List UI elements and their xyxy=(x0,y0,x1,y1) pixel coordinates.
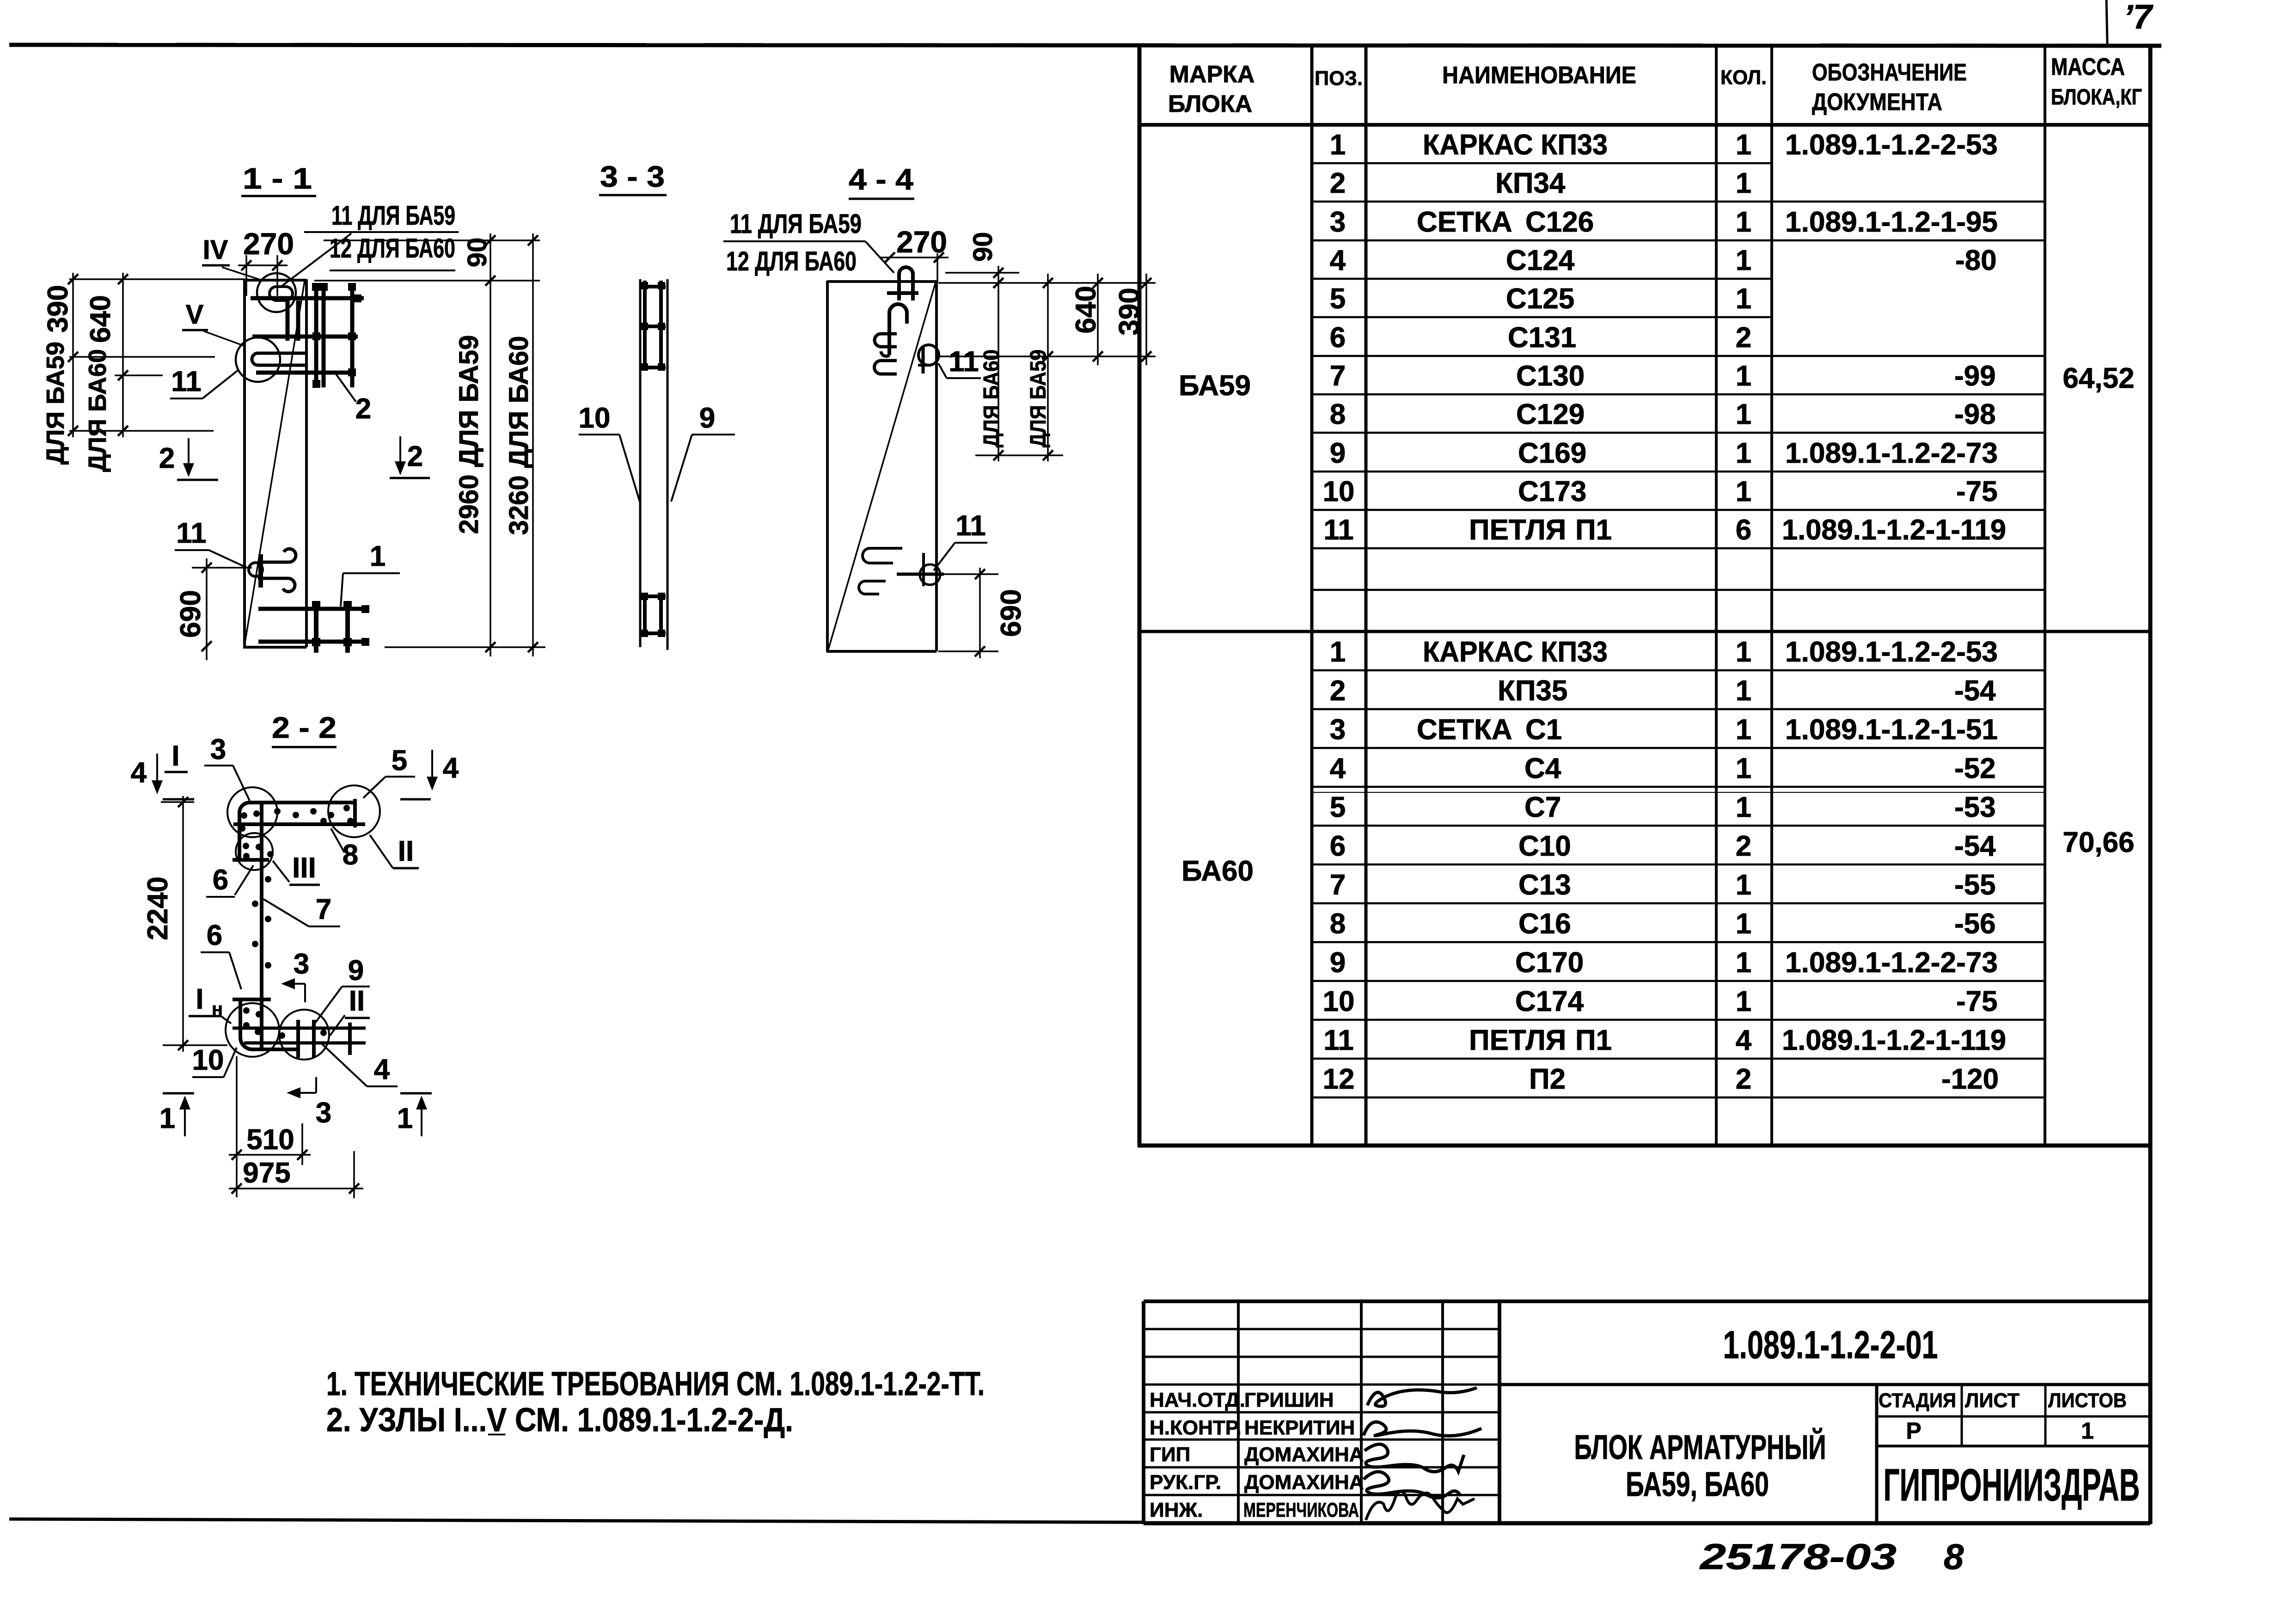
svg-text:11: 11 xyxy=(955,510,986,542)
svg-text:2: 2 xyxy=(159,442,175,474)
svg-text:БЛОКА,КГ: БЛОКА,КГ xyxy=(2051,85,2142,110)
view 1-1 right dim ticks xyxy=(485,235,538,652)
svg-text:1: 1 xyxy=(159,1103,175,1134)
svg-text:ДЛЯ БА59: ДЛЯ БА59 xyxy=(42,342,69,465)
svg-text:П2: П2 xyxy=(1529,1063,1566,1095)
svg-text:3: 3 xyxy=(316,1097,331,1129)
view 1-1 lifting loop П1 top xyxy=(252,287,306,365)
svg-text:2. УЗЛЫ I...V̲ СМ. 1.089.1-1.2: 2. УЗЛЫ I...V̲ СМ. 1.089.1-1.2-2-Д. xyxy=(326,1402,793,1439)
svg-text:С1: С1 xyxy=(1525,714,1562,746)
view 1-1 leader IV to panel xyxy=(222,267,259,279)
svg-text:1: 1 xyxy=(1736,791,1751,823)
svg-text:7: 7 xyxy=(1330,869,1346,901)
svg-text:КП34: КП34 xyxy=(1495,167,1566,199)
svg-text:70,66: 70,66 xyxy=(2062,827,2134,858)
БА59 quantities xyxy=(1736,129,1751,546)
svg-text:1: 1 xyxy=(1736,360,1751,392)
svg-text:690: 690 xyxy=(995,589,1027,637)
svg-text:ДЛЯ БА60: ДЛЯ БА60 xyxy=(979,349,1004,447)
title block signature rows xyxy=(1144,1329,1499,1495)
spec table header bottom line xyxy=(1139,123,2150,127)
svg-text:8: 8 xyxy=(343,839,358,871)
svg-text:270: 270 xyxy=(243,227,294,261)
СТАДИЯ/ЛИСТ separator xyxy=(1961,1385,1963,1446)
svg-text:ДОКУМЕНТА: ДОКУМЕНТА xyxy=(1812,89,1942,116)
svg-text:1: 1 xyxy=(1736,398,1751,430)
view 2-2 rebar dots xyxy=(239,805,354,1039)
view 3-3 element outline xyxy=(639,279,642,647)
view 1-1 bottom mesh dots xyxy=(312,601,369,646)
svg-text:8: 8 xyxy=(1944,1536,1964,1577)
stage value row bottom xyxy=(1877,1445,2150,1447)
stage cells xyxy=(1879,1389,2127,1444)
signature Домахина (ГИП) xyxy=(1365,1444,1464,1471)
svg-text:Р: Р xyxy=(1906,1418,1921,1444)
stage header row bottom xyxy=(1877,1416,2150,1418)
svg-text:9: 9 xyxy=(348,955,364,987)
svg-text:-99: -99 xyxy=(1954,360,1996,392)
view 1-1 left extension lines xyxy=(69,279,245,431)
svg-text:4: 4 xyxy=(443,752,459,784)
svg-text:3: 3 xyxy=(210,734,226,766)
svg-text:ИНЖ.: ИНЖ. xyxy=(1150,1499,1203,1521)
svg-text:390: 390 xyxy=(1114,288,1145,335)
svg-text:6: 6 xyxy=(1330,322,1346,354)
svg-text:БА59: БА59 xyxy=(1179,370,1251,402)
svg-text:-98: -98 xyxy=(1954,398,1996,430)
svg-text:2240: 2240 xyxy=(142,876,174,940)
view 4-4 dim 690 xyxy=(920,573,998,575)
svg-text:270: 270 xyxy=(896,225,947,259)
svg-text:БА60: БА60 xyxy=(1181,855,1254,887)
svg-text:-55: -55 xyxy=(1954,869,1996,901)
view 2-2 flange end bar xyxy=(353,799,357,827)
svg-text:С131: С131 xyxy=(1508,322,1576,354)
svg-text:1: 1 xyxy=(2081,1418,2094,1444)
view 2-2 dim 2240 xyxy=(161,801,194,803)
view 2-2 dim 975 xyxy=(353,1151,355,1198)
svg-text:КАРКАС КП33: КАРКАС КП33 xyxy=(1423,636,1608,668)
svg-text:11: 11 xyxy=(176,517,207,549)
page number separator tick xyxy=(2106,0,2107,45)
svg-text:-75: -75 xyxy=(1956,476,1998,508)
svg-text:12: 12 xyxy=(1323,1063,1355,1095)
view 4-4 top lifting loop xyxy=(875,267,939,374)
svg-text:1.089.1-1.2-2-73: 1.089.1-1.2-2-73 xyxy=(1785,947,1998,979)
signature Гришин xyxy=(1367,1388,1477,1406)
svg-text:9: 9 xyxy=(1330,947,1346,979)
svg-text:Н.КОНТР.: Н.КОНТР. xyxy=(1150,1416,1242,1439)
svg-text:П1: П1 xyxy=(1575,1024,1612,1056)
svg-text:С13: С13 xyxy=(1518,869,1571,901)
svg-text:С173: С173 xyxy=(1518,476,1586,508)
svg-text:С125: С125 xyxy=(1506,283,1574,315)
БА60 quantities xyxy=(1736,636,1752,1095)
view 4-4 bottom hooks xyxy=(859,548,944,594)
view 4-4 panel outline xyxy=(826,281,936,651)
view 1-1 left dim lines xyxy=(73,273,123,437)
view 2-2 node circle II upper xyxy=(328,785,380,837)
view 2-2 title underline xyxy=(272,746,337,748)
svg-text:2: 2 xyxy=(1736,830,1751,862)
svg-text:12 ДЛЯ БА60: 12 ДЛЯ БА60 xyxy=(330,233,455,264)
view 3-3 top stirrup xyxy=(641,281,666,370)
svg-text:8: 8 xyxy=(1330,398,1346,430)
svg-text:III: III xyxy=(292,852,316,884)
svg-text:1: 1 xyxy=(1736,283,1751,315)
view 4-4 right dim ticks xyxy=(993,268,1151,460)
svg-text:ЛИСТ: ЛИСТ xyxy=(1965,1389,2020,1412)
svg-text:6: 6 xyxy=(1330,830,1346,862)
svg-text:ДЛЯ БА60: ДЛЯ БА60 xyxy=(84,349,111,472)
svg-text:11: 11 xyxy=(949,346,979,378)
svg-text:10: 10 xyxy=(579,402,611,434)
frame top border xyxy=(9,45,2161,46)
svg-text:1.089.1-1.2-2-73: 1.089.1-1.2-2-73 xyxy=(1785,437,1998,469)
БА60 names xyxy=(1417,636,1612,1095)
svg-text:С124: С124 xyxy=(1506,245,1575,276)
view 3-3 title underline xyxy=(599,194,667,196)
svg-text:РУК.ГР.: РУК.ГР. xyxy=(1150,1471,1221,1494)
svg-text:64,52: 64,52 xyxy=(2062,362,2134,394)
svg-text:90: 90 xyxy=(968,232,998,262)
spec table bottom border xyxy=(1138,1144,2150,1148)
svg-text:2: 2 xyxy=(355,393,371,425)
svg-text:1: 1 xyxy=(1736,947,1751,979)
svg-text:1: 1 xyxy=(1736,714,1751,746)
БА59 pos numbers xyxy=(1323,129,1355,546)
svg-text:640: 640 xyxy=(85,295,116,343)
svg-text:БЛОК АРМАТУРНЫЙ: БЛОК АРМАТУРНЫЙ xyxy=(1574,1428,1826,1466)
svg-text:11: 11 xyxy=(1323,514,1354,546)
svg-text:3: 3 xyxy=(1330,714,1346,746)
svg-text:СТАДИЯ: СТАДИЯ xyxy=(1879,1389,1956,1412)
title block top line xyxy=(1144,1299,2150,1303)
svg-text:1: 1 xyxy=(370,540,386,572)
svg-text:МЕРЕНЧИКОВА: МЕРЕНЧИКОВА xyxy=(1243,1499,1359,1521)
svg-text:5: 5 xyxy=(1330,791,1346,823)
svg-text:3: 3 xyxy=(294,948,309,980)
svg-text:V: V xyxy=(186,300,204,330)
svg-text:2: 2 xyxy=(1736,1063,1751,1095)
view 3-3 bottom stirrup xyxy=(641,594,666,637)
view 1-1 right extension lines xyxy=(314,240,545,647)
svg-text:690: 690 xyxy=(175,590,207,637)
view 1-1 panel outline xyxy=(243,279,306,647)
svg-text:1: 1 xyxy=(1736,986,1751,1017)
view 1-1 top mesh end dots xyxy=(312,283,361,388)
svg-text:ГРИШИН: ГРИШИН xyxy=(1244,1389,1334,1411)
svg-text:1.089.1-1.2-1-119: 1.089.1-1.2-1-119 xyxy=(1782,514,2006,546)
svg-text:3260 ДЛЯ БА60: 3260 ДЛЯ БА60 xyxy=(504,336,534,535)
svg-text:БА59, БА60: БА59, БА60 xyxy=(1626,1465,1769,1503)
svg-text:8: 8 xyxy=(1330,908,1346,940)
title block vertical: labels/names xyxy=(1237,1301,1240,1523)
svg-text:11: 11 xyxy=(171,366,202,398)
svg-text:5: 5 xyxy=(392,745,407,777)
svg-text:1: 1 xyxy=(1330,636,1346,668)
view 2-2 node circle I xyxy=(227,787,277,837)
svg-text:2: 2 xyxy=(407,441,423,472)
svg-text:1: 1 xyxy=(1736,869,1751,901)
svg-text:2 - 2: 2 - 2 xyxy=(272,711,337,744)
view 1-1 leader V to hook xyxy=(203,331,244,346)
title block vertical: left part / document part xyxy=(1498,1301,1501,1523)
svg-text:П1: П1 xyxy=(1575,514,1612,546)
svg-text:2: 2 xyxy=(1330,675,1346,707)
view 1-1 bottom lifting loop xyxy=(249,549,296,592)
svg-text:ПОЗ.: ПОЗ. xyxy=(1315,67,1363,90)
svg-text:С16: С16 xyxy=(1518,908,1571,940)
svg-text:3: 3 xyxy=(1330,206,1346,238)
svg-text:1. ТЕХНИЧЕСКИЕ ТРЕБОВАНИЯ СМ.: 1. ТЕХНИЧЕСКИЕ ТРЕБОВАНИЯ СМ. 1.089.1-1.… xyxy=(326,1366,985,1403)
svg-text:КП35: КП35 xyxy=(1498,675,1567,707)
svg-text:11 ДЛЯ БА59: 11 ДЛЯ БА59 xyxy=(331,201,455,231)
БА59 document designations xyxy=(1782,129,2006,546)
svg-text:11 ДЛЯ БА59: 11 ДЛЯ БА59 xyxy=(730,209,862,239)
svg-text:-120: -120 xyxy=(1941,1063,1999,1095)
svg-text:7: 7 xyxy=(1330,360,1346,392)
signature Некритин xyxy=(1364,1422,1481,1436)
view 1-1 dim 690 xyxy=(192,567,252,569)
svg-text:1: 1 xyxy=(1736,908,1751,940)
svg-text:II: II xyxy=(349,985,365,1017)
view 1-1 node circle V xyxy=(236,337,280,382)
svg-text:НЕКРИТИН: НЕКРИТИН xyxy=(1244,1416,1355,1439)
spec table column line ПОЗ/НАИМЕНОВАНИЕ xyxy=(1365,44,1368,1146)
svg-text:25178-03: 25178-03 xyxy=(1699,1536,1897,1577)
title block vertical: names/signatures xyxy=(1360,1301,1363,1523)
ЛИСТ/ЛИСТОВ separator xyxy=(2044,1385,2047,1446)
view 2-2 node circle III xyxy=(236,833,273,870)
svg-text:ДОМАХИНА: ДОМАХИНА xyxy=(1244,1471,1364,1494)
svg-text:9: 9 xyxy=(699,402,715,434)
svg-text:ГИПРОНИИЗДРАВ: ГИПРОНИИЗДРАВ xyxy=(1884,1459,2140,1510)
view 1-1 title underline xyxy=(241,195,316,197)
view 2-2 stirrup rungs xyxy=(233,860,271,999)
БА60 pos numbers xyxy=(1323,636,1355,1095)
spec table outer left border xyxy=(1138,44,1142,1146)
svg-text:1: 1 xyxy=(1736,476,1751,508)
view 4-4 right dim lines xyxy=(998,266,1146,461)
svg-text:НАЧ.ОТД.: НАЧ.ОТД. xyxy=(1150,1389,1245,1411)
frame right border xyxy=(2148,44,2153,1524)
svg-text:-52: -52 xyxy=(1954,753,1996,784)
view 4-4 label underline and leader xyxy=(723,240,865,242)
spec table column line ОБОЗНАЧЕНИЕ/МАССА xyxy=(2044,44,2046,1146)
svg-text:С174: С174 xyxy=(1515,986,1584,1017)
svg-text:-80: -80 xyxy=(1955,245,1997,276)
svg-text:1: 1 xyxy=(1736,245,1751,276)
svg-text:1: 1 xyxy=(397,1103,413,1134)
signature Домахина (РУК.ГР.) xyxy=(1364,1472,1461,1498)
svg-text:ПЕТЛЯ: ПЕТЛЯ xyxy=(1469,1024,1566,1056)
view 4-4 right extension lines xyxy=(938,273,1156,455)
svg-text:6: 6 xyxy=(213,864,228,896)
svg-text:510: 510 xyxy=(246,1124,294,1156)
svg-text:БЛОКА: БЛОКА xyxy=(1168,91,1252,117)
row lines БА59 section xyxy=(1312,163,2045,590)
title block designation box bottom xyxy=(1499,1383,2150,1386)
svg-text:2960 ДЛЯ БА59: 2960 ДЛЯ БА59 xyxy=(454,335,484,534)
title block bottom line xyxy=(1144,1521,2150,1526)
svg-text:МАССА: МАССА xyxy=(2051,54,2125,80)
view 2-2 section outline xyxy=(233,803,365,1050)
svg-text:ГИП: ГИП xyxy=(1150,1443,1190,1466)
svg-text:КАРКАС КП33: КАРКАС КП33 xyxy=(1423,129,1608,161)
svg-text:1: 1 xyxy=(1736,675,1751,707)
svg-text:1: 1 xyxy=(1330,129,1346,161)
svg-text:2: 2 xyxy=(1736,322,1751,354)
svg-text:3 - 3: 3 - 3 xyxy=(600,160,665,193)
svg-text:СЕТКА: СЕТКА xyxy=(1417,714,1512,746)
spec table column line МАРКА/ПОЗ xyxy=(1310,44,1314,1146)
view 1-1 top mesh bars xyxy=(251,284,364,387)
svg-text:ОБОЗНАЧЕНИЕ: ОБОЗНАЧЕНИЕ xyxy=(1812,59,1967,86)
view 4-4 diagonal break line xyxy=(828,282,936,650)
frame bottom border (left of title block) xyxy=(9,1519,1144,1522)
svg-text:1.089.1-1.2-2-01: 1.089.1-1.2-2-01 xyxy=(1723,1323,1938,1367)
svg-text:640: 640 xyxy=(1070,286,1102,333)
svg-text:10: 10 xyxy=(1323,986,1355,1017)
svg-text:975: 975 xyxy=(243,1157,290,1189)
svg-text:1 - 1: 1 - 1 xyxy=(243,162,312,195)
svg-text:4: 4 xyxy=(374,1054,390,1085)
svg-text:С129: С129 xyxy=(1516,398,1585,430)
svg-text:-75: -75 xyxy=(1956,986,1998,1017)
svg-text:4: 4 xyxy=(1736,1024,1752,1056)
svg-text:НАИМЕНОВАНИЕ: НАИМЕНОВАНИЕ xyxy=(1442,62,1636,89)
title block vertical name/stage xyxy=(1875,1385,1879,1523)
svg-text:II: II xyxy=(398,835,414,867)
view 1-1 label underline and leader xyxy=(304,231,459,233)
svg-text:5: 5 xyxy=(1330,283,1346,315)
svg-text:11: 11 xyxy=(1323,1024,1354,1056)
svg-text:2: 2 xyxy=(1330,167,1346,199)
svg-text:9: 9 xyxy=(1330,437,1346,469)
view 1-1 left dim ticks xyxy=(68,274,128,436)
spec table column line КОЛ/ОБОЗНАЧЕНИЕ xyxy=(1770,44,1773,1146)
view 1-1 node circle IV xyxy=(257,273,296,312)
svg-text:’7: ’7 xyxy=(2124,0,2154,36)
svg-text:1: 1 xyxy=(1736,636,1751,668)
svg-text:10: 10 xyxy=(192,1044,224,1076)
svg-text:10: 10 xyxy=(1323,476,1355,508)
svg-text:С10: С10 xyxy=(1518,830,1571,862)
title block vertical: signatures/date xyxy=(1441,1301,1444,1523)
view 1-1 right dim lines 2960 3260 xyxy=(490,233,491,656)
view 1-1 diagonal break line xyxy=(245,281,305,645)
svg-text:1: 1 xyxy=(1736,129,1751,161)
svg-text:IV: IV xyxy=(203,235,228,265)
svg-text:С130: С130 xyxy=(1516,360,1585,392)
svg-text:12 ДЛЯ БА60: 12 ДЛЯ БА60 xyxy=(726,246,857,276)
view 2-2 node circle Iн xyxy=(226,1003,279,1057)
svg-text:-54: -54 xyxy=(1954,830,1996,862)
view 2-2 dim 510 xyxy=(236,1056,238,1197)
svg-text:1: 1 xyxy=(1736,753,1751,784)
svg-text:С170: С170 xyxy=(1515,947,1584,979)
svg-text:4: 4 xyxy=(131,757,147,789)
svg-text:6: 6 xyxy=(1736,514,1751,546)
svg-text:390: 390 xyxy=(42,285,74,332)
svg-text:С4: С4 xyxy=(1524,753,1561,784)
svg-text:СЕТКА: СЕТКА xyxy=(1417,206,1512,238)
spec table header texts xyxy=(1168,54,2142,117)
svg-text:1: 1 xyxy=(1736,206,1751,238)
svg-text:ЛИСТОВ: ЛИСТОВ xyxy=(2048,1389,2127,1412)
svg-text:ДОМАХИНА: ДОМАХИНА xyxy=(1244,1443,1364,1466)
view 2-2 node circle II lower xyxy=(279,1010,329,1060)
svg-text:С7: С7 xyxy=(1524,791,1561,823)
svg-text:1.089.1-1.2-1-51: 1.089.1-1.2-1-51 xyxy=(1785,714,1998,746)
view 2-2 bottom mesh bars xyxy=(233,1020,366,1058)
svg-text:-56: -56 xyxy=(1954,908,1996,940)
svg-text:I: I xyxy=(196,983,203,1015)
svg-text:1: 1 xyxy=(1736,437,1751,469)
svg-text:1: 1 xyxy=(1736,167,1751,199)
БА60 document designations xyxy=(1782,636,2006,1095)
svg-text:4: 4 xyxy=(1330,245,1346,276)
svg-text:1.089.1-1.2-2-53: 1.089.1-1.2-2-53 xyxy=(1785,636,1998,668)
spec table column line НАИМЕНОВАНИЕ/КОЛ xyxy=(1715,44,1718,1146)
view 4-4 title underline xyxy=(849,198,914,200)
title block texts xyxy=(1150,1389,1364,1521)
svg-text:ПЕТЛЯ: ПЕТЛЯ xyxy=(1469,514,1566,546)
title block left border xyxy=(1142,1301,1145,1524)
svg-text:1.089.1-1.2-1-95: 1.089.1-1.2-1-95 xyxy=(1785,206,1998,238)
svg-text:I: I xyxy=(171,740,179,772)
svg-text:ДЛЯ БА59: ДЛЯ БА59 xyxy=(1026,349,1051,447)
svg-text:1.089.1-1.2-1-119: 1.089.1-1.2-1-119 xyxy=(1782,1024,2006,1056)
svg-text:-53: -53 xyxy=(1954,791,1996,823)
svg-text:КОЛ.: КОЛ. xyxy=(1720,66,1767,89)
svg-text:МАРКА: МАРКА xyxy=(1169,61,1255,88)
svg-text:С126: С126 xyxy=(1525,206,1594,238)
view 1-1 bottom mesh xyxy=(258,601,368,653)
svg-text:1.089.1-1.2-2-53: 1.089.1-1.2-2-53 xyxy=(1785,129,1998,161)
svg-text:90: 90 xyxy=(462,238,492,268)
row lines БА60 section xyxy=(1312,670,2045,1097)
svg-text:7: 7 xyxy=(316,894,331,925)
svg-text:4: 4 xyxy=(1330,753,1346,784)
spec table section divider БА59/БА60 xyxy=(1139,630,2150,633)
title block xyxy=(1144,1301,2150,1524)
svg-text:-54: -54 xyxy=(1954,675,1996,707)
svg-text:С169: С169 xyxy=(1518,437,1586,469)
БА59 names xyxy=(1417,129,1612,546)
signature Меренчикова xyxy=(1366,1491,1475,1520)
svg-text:6: 6 xyxy=(207,919,222,951)
svg-text:4 - 4: 4 - 4 xyxy=(849,163,913,196)
